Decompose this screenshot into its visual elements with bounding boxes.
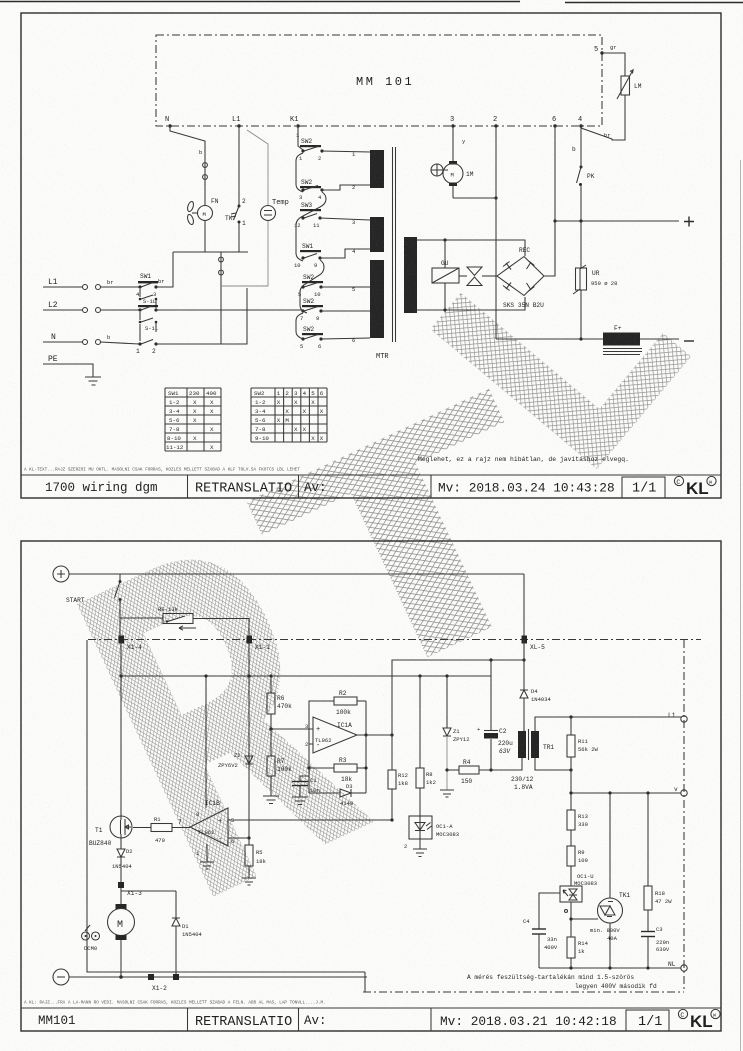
terminal X1-4 (119, 636, 125, 644)
capacitor C1 (292, 776, 320, 805)
tap wires (322, 151, 370, 152)
wire pin6 down (554, 126, 556, 221)
pin 3 (451, 124, 454, 127)
bottom connecting wire fan/TK (173, 251, 248, 253)
SW1 s4 (294, 243, 322, 269)
resistor R11 (567, 717, 599, 810)
bottom return wire (69, 976, 367, 978)
resistor R6 (267, 674, 292, 729)
bottom live rail (539, 967, 681, 969)
wire to motor (120, 888, 122, 908)
relay GU (432, 240, 459, 310)
relay contact RE-13k (120, 606, 249, 630)
switch block SW1 (136, 273, 165, 298)
IC1B supply column (205, 676, 207, 808)
feedback column (365, 701, 367, 793)
transformer MTR primary winding 1 (370, 150, 384, 188)
table SW1 230/400 (165, 388, 221, 451)
XL-5 branch to R12 column (392, 640, 524, 770)
main rail (121, 675, 491, 677)
switch PK column from pin4 (580, 126, 582, 166)
terminal XL-5 (522, 636, 528, 644)
mains terminal NL (681, 965, 687, 971)
SW2 s5 (298, 274, 323, 298)
resistor R13 (567, 810, 588, 846)
resistor R8 (416, 674, 436, 816)
table SW2 1..6 (251, 388, 327, 442)
wire pot to pin5 (602, 53, 625, 76)
potentiometer LM (617, 70, 642, 99)
scan artifact right edge (740, 160, 742, 1051)
flyback diode D1 (172, 891, 203, 977)
panel border (21, 541, 721, 1031)
pin6 wire (228, 837, 249, 839)
TR1 secondary wires (535, 758, 571, 770)
resistor R5 (242, 838, 267, 885)
optocoupler OC1-A (404, 816, 459, 857)
title bar dividers (188, 1008, 432, 1031)
SW3 s3 (294, 202, 322, 229)
wire L1 pin down (238, 126, 240, 205)
panel border (21, 13, 721, 498)
transformer TR1 (511, 729, 554, 791)
resistor R2 (334, 690, 357, 716)
SW1 row1 output up to fan line (156, 252, 173, 287)
X1 terminal dash-dot line (88, 639, 701, 641)
wire SW1 row3 right (156, 288, 247, 344)
terminal X1-3 (118, 882, 124, 888)
START switch (66, 574, 122, 637)
mains terminal L1 (681, 716, 687, 722)
1/1 box (622, 477, 665, 498)
capacitor C2 (477, 676, 513, 770)
ground R7 (263, 796, 279, 804)
title bar line (21, 474, 721, 476)
motor M (108, 904, 135, 979)
X1-1 feed wire (248, 618, 250, 637)
resistor R18 (644, 793, 672, 931)
resistor R14 (567, 937, 589, 968)
pin5 wire (228, 819, 392, 821)
branch to flyback diode (121, 890, 176, 892)
wire REC up join (554, 221, 556, 276)
KL logo (678, 1009, 720, 1031)
pin N (168, 124, 171, 127)
wire FN bottom (204, 221, 206, 253)
triac TK1 (565, 793, 631, 968)
wire N pin down to fan branch (170, 126, 205, 160)
scan noise overlay (0, 0, 1, 1)
X1-1 column below (248, 642, 250, 838)
switch SW1 row2 (138, 305, 158, 312)
minus rail (496, 338, 679, 340)
MM101 dash-dot enclosure (156, 35, 602, 126)
wire pin2 down to minus rail (495, 126, 497, 339)
XL-5 feed wire (523, 574, 525, 637)
R2 left wire to inverting input (309, 701, 334, 744)
connector circles on fan branch (204, 160, 206, 186)
op-amp IC1A (305, 717, 357, 753)
op-amp IC1B (178, 800, 234, 857)
encoder symbol (82, 925, 100, 952)
resistor R1 (133, 816, 190, 844)
v rail (571, 792, 681, 794)
node divider (269, 727, 272, 730)
IC1B pin1 ground stub (206, 844, 208, 862)
inner enclosure left/bottom (87, 640, 365, 972)
bridge rectifier REC (497, 247, 544, 309)
resistor R3 (309, 757, 366, 783)
diode D2 (112, 838, 133, 882)
1/1 box (626, 1010, 669, 1031)
motor return wire (453, 197, 496, 199)
ground PE (43, 364, 101, 385)
SW2 s6 (300, 298, 323, 322)
diode D4 (520, 640, 552, 731)
REC output to plus rail (544, 221, 555, 276)
Temp sensor gray wire (247, 130, 268, 205)
transistor T1 mosfet (89, 816, 132, 847)
minus sign (684, 340, 694, 342)
transformer primary winding 3 (370, 260, 384, 338)
pin 5 right edge (600, 51, 603, 54)
Temp return gray wire (221, 221, 268, 286)
op-amp output wire (357, 734, 392, 736)
zener Z1 (440, 674, 470, 797)
SW2 s1 (299, 138, 324, 162)
pin K1 (296, 124, 299, 127)
KL logo (674, 476, 716, 498)
zener Z2 (218, 752, 253, 769)
pin 2 (494, 124, 497, 127)
SW2 s7 (300, 326, 323, 350)
transformer primary winding 2 (370, 217, 384, 252)
Temp sensor (261, 199, 289, 221)
wire K1 pin down to SW2 chain (298, 126, 303, 150)
resistor R7 (267, 729, 292, 796)
optotriac OC1-U (560, 873, 597, 937)
terminal X1-1 (247, 636, 253, 644)
secondary bottom rail (417, 297, 525, 310)
mains terminal v (681, 790, 687, 796)
low voltage dash-dot boundary bottom (363, 991, 684, 993)
switch SW1 row3 (136, 340, 158, 356)
resistor R12 (388, 770, 408, 820)
SW2 s2 (299, 179, 324, 201)
wire TK to bottom (238, 223, 240, 252)
wire to fan motor (204, 182, 206, 205)
capacitor C3 (641, 926, 670, 968)
fan motor FN (186, 198, 218, 225)
resistor R9 (567, 846, 588, 886)
minus terminal (53, 969, 69, 985)
sub switch S-1L (139, 289, 158, 308)
motor 1M (431, 126, 474, 198)
resistor R4 (447, 758, 522, 785)
switch TK (225, 205, 246, 228)
low voltage dash-dot boundary right (683, 640, 685, 992)
T1 drain column (120, 642, 122, 816)
varistor UR (573, 221, 617, 341)
transformer secondary winding (404, 237, 417, 313)
EMI filter block F+ (603, 333, 640, 346)
pin 6 (553, 124, 556, 127)
X1-2 terminals (148, 974, 154, 980)
title bar dividers (188, 475, 432, 498)
title bar line (21, 1007, 721, 1009)
pot LM branch from pin4 (581, 95, 625, 140)
pin 4 (579, 124, 582, 127)
junction circles column (220, 252, 222, 344)
SW2 chain link wires (296, 153, 303, 192)
sub switch S-1L lower (139, 312, 159, 341)
plus terminal (53, 566, 69, 582)
top supply wire (69, 573, 524, 575)
valve suppressor (459, 267, 497, 286)
long wire SW1 row2 to SW2 chain (156, 309, 303, 311)
secondary top rail (417, 240, 525, 256)
transformer core (393, 147, 396, 342)
inverting node column (308, 744, 310, 793)
plus sign (684, 217, 694, 227)
capacitor C4 (523, 893, 560, 968)
scan artifact top edge (0, 2, 743, 3)
pin L1 (237, 124, 240, 127)
diode D3 (309, 783, 366, 807)
plus rail (555, 220, 679, 222)
